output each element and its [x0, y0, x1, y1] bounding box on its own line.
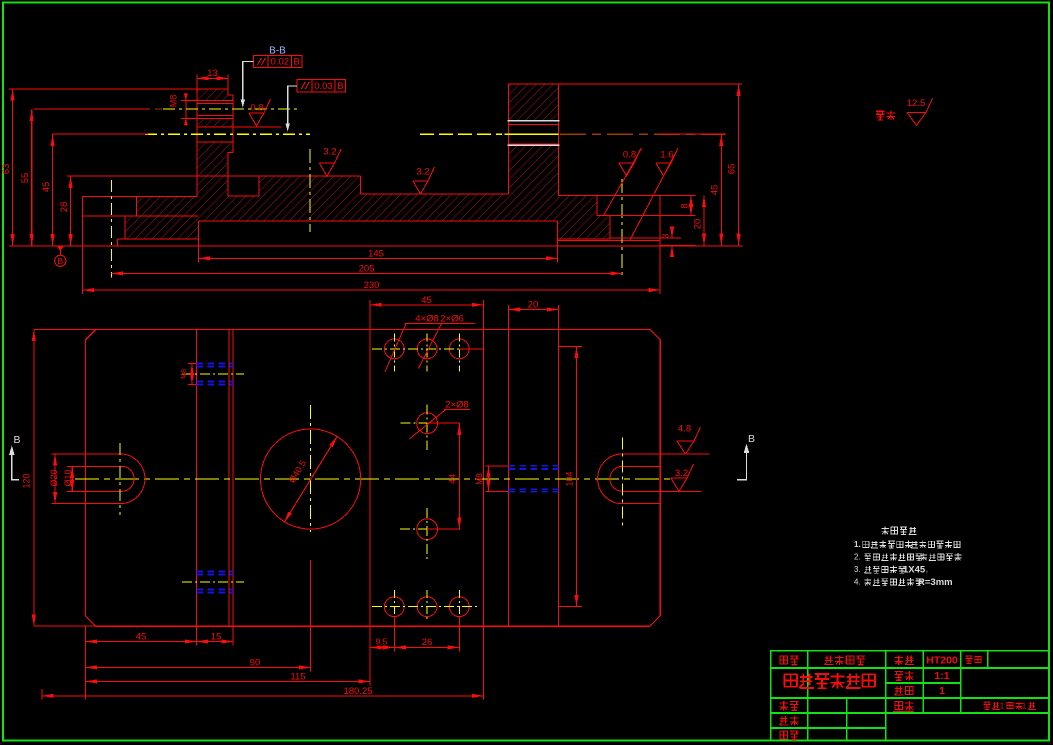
- plan vertical 20strip right: [558, 330, 560, 627]
- dim 65: [738, 84, 740, 245]
- top row centerline h: [372, 348, 480, 350]
- ext line right 134: [660, 133, 726, 135]
- txt cailiao: [894, 655, 903, 665]
- hatch right tower top: [509, 84, 559, 120]
- ext line right 195: [660, 195, 695, 197]
- dim 230: [83, 289, 661, 291]
- svg-text:B: B: [337, 81, 343, 92]
- vertical centerline boss: [309, 149, 311, 232]
- tolerance frame 0.03 B: [297, 80, 345, 92]
- svg-text:3: 3: [661, 233, 671, 238]
- left slot inner lines: [85, 465, 121, 467]
- svg-text:45: 45: [41, 182, 52, 193]
- dim 45 left: [52, 134, 54, 246]
- svg-text:B-B: B-B: [269, 46, 286, 57]
- txt xuhao: [779, 656, 788, 664]
- ext line bottom left: [9, 245, 83, 247]
- svg-text:20: 20: [528, 300, 539, 311]
- small hole 3: [449, 339, 469, 359]
- left tower top step: [228, 89, 233, 95]
- txt shenhe: [779, 731, 788, 739]
- vertical centerline left hole: [110, 180, 112, 278]
- right pocket wall: [609, 216, 611, 239]
- right slot outer lines: [623, 453, 710, 455]
- title col 960: [960, 651, 962, 713]
- hidden hole line blue: [197, 384, 234, 386]
- hatch left pocket band: [137, 196, 197, 216]
- left tower right step: [228, 153, 233, 196]
- svg-text:1: 1: [1022, 702, 1027, 711]
- svg-text:4×Ø8: 4×Ø8: [415, 314, 439, 325]
- datum B symbol: [55, 255, 66, 266]
- middle hole upper: [417, 413, 438, 434]
- dim 180.25: [42, 695, 484, 697]
- svg-text:B: B: [294, 57, 300, 68]
- svg-text:。: 。: [926, 568, 931, 574]
- svg-text:0.8: 0.8: [250, 103, 263, 114]
- right tower top edge: [509, 83, 559, 85]
- dim 45 top: [370, 304, 483, 306]
- M8 hidden lines blue: [508, 465, 558, 467]
- ext line 145 left: [198, 246, 200, 263]
- dim 44: [427, 422, 459, 424]
- ext line 45L: [53, 133, 148, 135]
- M8 hole outer lines: [181, 100, 233, 102]
- ext top 20: [507, 305, 509, 330]
- dim 205: [111, 272, 622, 274]
- M8 ext lines plan: [486, 465, 509, 467]
- svg-text:。: 。: [956, 543, 961, 549]
- hidden hole line blue: [197, 363, 234, 365]
- txt jianshu: [894, 686, 903, 695]
- left col centerline top: [182, 373, 244, 375]
- svg-text:B: B: [748, 433, 755, 445]
- tolerance frame 0.02 B: [254, 55, 302, 67]
- left tower top edge: [197, 88, 228, 90]
- left groove bottom: [117, 238, 198, 240]
- M8 axis centerline: [140, 108, 162, 110]
- hidden hole line blue: [197, 381, 234, 383]
- ext bottom lines: [84, 626, 86, 699]
- left pocket right wall: [136, 196, 138, 216]
- B arrow right: [737, 450, 747, 480]
- notch floor: [228, 195, 259, 197]
- svg-text:8: 8: [680, 203, 691, 208]
- left tower left edge: [196, 89, 198, 196]
- right slot outer arc: [598, 454, 623, 504]
- slab bottom rect top line: [199, 220, 558, 222]
- svg-text:M8: M8: [181, 369, 188, 379]
- part left edge: [82, 196, 84, 246]
- dim 15 bottom: [197, 641, 234, 643]
- svg-text:1.: 1.: [854, 540, 861, 549]
- B arrow left: [12, 452, 19, 480]
- svg-text:M8: M8: [474, 473, 484, 485]
- M8 hole inner lines: [197, 102, 233, 104]
- dim 45 bottom: [85, 641, 196, 643]
- dim 8 right: [690, 196, 692, 216]
- middle hole upper centerlines: [400, 422, 459, 424]
- svg-text:M8: M8: [169, 95, 179, 108]
- dim 3 right: [671, 227, 673, 238]
- plan vertical strip left: [369, 330, 371, 627]
- svg-text:230: 230: [364, 280, 380, 291]
- dim 28: [70, 176, 72, 246]
- svg-text:104: 104: [565, 471, 575, 486]
- left slot outer lines: [85, 453, 120, 455]
- title col 807: [807, 651, 809, 741]
- hole centerline v bottom: [426, 590, 428, 622]
- ext line top right: [559, 83, 743, 85]
- title col 885: [885, 651, 887, 741]
- bottom row centerline h: [372, 606, 480, 608]
- boss right edge: [359, 176, 361, 194]
- hidden hole line blue: [197, 571, 234, 573]
- left col centerline bottom: [182, 581, 244, 583]
- left tower right edge upper: [232, 95, 234, 153]
- big circle diameter dim: [284, 436, 337, 522]
- svg-text:55: 55: [20, 173, 31, 184]
- svg-text:15: 15: [211, 632, 222, 643]
- txt zhongliang: [894, 702, 903, 710]
- svg-text:1.6: 1.6: [660, 150, 673, 161]
- right step wall: [596, 196, 598, 216]
- ext top 45: [369, 300, 371, 329]
- right step floor: [597, 215, 610, 217]
- boss left edge: [258, 176, 260, 196]
- ext line bottom right: [660, 245, 743, 247]
- txt huitu: [779, 701, 788, 711]
- svg-text:3.2: 3.2: [323, 147, 336, 158]
- svg-text:2.: 2.: [854, 553, 861, 562]
- plan outline: [85, 330, 660, 627]
- M8 dim plan: [488, 466, 490, 492]
- svg-text:13: 13: [207, 68, 218, 79]
- hidden hole line blue: [197, 366, 234, 368]
- vertical centerline right hole: [621, 179, 623, 278]
- hatch left tower band2: [197, 118, 233, 127]
- tech req title: [881, 526, 888, 534]
- title col 923: [922, 651, 924, 713]
- hidden hole line blue: [197, 589, 234, 591]
- txt lingjianmingcheng: [824, 656, 833, 665]
- right groove bottom: [558, 238, 610, 240]
- big circle: [261, 429, 361, 529]
- top row red ext: [459, 348, 483, 350]
- ext line right 238: [610, 237, 681, 239]
- svg-text:R=3mm: R=3mm: [918, 577, 953, 588]
- hole centerline v bottom: [393, 590, 395, 622]
- txt miaotu: [779, 716, 788, 725]
- svg-text:4.: 4.: [854, 578, 861, 587]
- ext line 55: [34, 108, 148, 110]
- plan vertical strip right: [483, 330, 485, 627]
- title row line 2: [886, 682, 961, 684]
- title col 987: [987, 651, 989, 668]
- svg-text:45: 45: [421, 295, 432, 306]
- svg-text:0.02: 0.02: [271, 57, 290, 68]
- svg-text:4.8: 4.8: [678, 424, 691, 435]
- dim d20: [51, 453, 85, 455]
- svg-text:1: 1: [939, 685, 945, 697]
- right slot inner lines: [623, 465, 661, 467]
- svg-text:12.5: 12.5: [907, 98, 926, 109]
- right tower right edge: [558, 84, 560, 195]
- svg-text:Ø20: Ø20: [49, 469, 59, 486]
- svg-text:3.2: 3.2: [675, 468, 688, 479]
- hidden hole line blue: [197, 574, 234, 576]
- svg-text:145: 145: [368, 248, 384, 259]
- hole centerline v top: [393, 334, 395, 372]
- middle hole lower centerlines: [400, 528, 460, 530]
- small hole 6: [449, 597, 469, 617]
- svg-text:90: 90: [250, 657, 261, 668]
- small hole 1: [384, 339, 404, 359]
- dim 120: [33, 330, 35, 627]
- dim 26 bottom: [394, 646, 459, 648]
- svg-text:0.03: 0.03: [314, 81, 333, 92]
- svg-text:1: 1: [1000, 702, 1005, 711]
- dim 115: [85, 680, 370, 682]
- bore axis centerline left: [145, 133, 310, 135]
- svg-text:26: 26: [422, 637, 433, 648]
- hatch left tower lower: [197, 142, 259, 221]
- boss top edge: [259, 175, 360, 177]
- title row line 1: [771, 667, 1049, 669]
- right tower left edge: [508, 84, 510, 194]
- hidden hole line blue: [197, 592, 234, 594]
- qiyu text: [876, 111, 885, 120]
- dim 104: [576, 347, 578, 607]
- slab rect right edge: [557, 221, 559, 246]
- left slot outer arc: [120, 454, 145, 504]
- dim 145: [199, 257, 558, 259]
- ext line top left: [9, 88, 197, 90]
- svg-text:2×Ø8: 2×Ø8: [445, 400, 469, 411]
- big circle vertical centerline: [310, 405, 312, 532]
- M8 dimension: [185, 93, 187, 126]
- plan vertical line c: [232, 330, 234, 627]
- right slot centerline: [622, 438, 624, 528]
- dim 63: [12, 89, 14, 246]
- left pocket top line: [83, 195, 197, 197]
- leader white frame1: [243, 62, 254, 104]
- svg-text:45: 45: [136, 632, 147, 643]
- svg-text:Ø10: Ø10: [63, 469, 73, 486]
- plan horizontal centerline: [75, 478, 672, 480]
- dim d10: [67, 465, 85, 467]
- ext line 230 right: [659, 246, 661, 294]
- middle hole lower: [417, 519, 438, 540]
- hole centerline v top: [426, 334, 428, 372]
- txt big title: [784, 674, 798, 686]
- svg-text:2×Ø6: 2×Ø6: [440, 314, 464, 325]
- left slot centerline: [119, 443, 121, 515]
- plan vertical line b: [228, 330, 230, 627]
- hatch left lower band: [125, 216, 199, 239]
- svg-text:B: B: [13, 434, 20, 446]
- hatch right tower lower + right slab: [509, 146, 610, 240]
- title block outer: [771, 651, 1049, 741]
- svg-text:1:1: 1:1: [934, 670, 949, 682]
- svg-text:20: 20: [693, 219, 704, 230]
- part right edge: [659, 196, 661, 246]
- svg-text:65: 65: [727, 164, 738, 175]
- svg-text:115: 115: [290, 671, 305, 682]
- ext 120 bottom: [34, 625, 96, 627]
- svg-text:B: B: [57, 256, 63, 266]
- right slot inner arc: [610, 466, 623, 491]
- left pocket bottom line: [83, 215, 199, 217]
- left lower pocket wall: [124, 216, 126, 239]
- right deck line: [559, 195, 661, 197]
- svg-text:45: 45: [710, 185, 721, 196]
- bore lines left tower: [197, 126, 282, 128]
- middle deck line: [360, 193, 508, 195]
- svg-text:3.: 3.: [854, 565, 861, 574]
- small hole 2: [417, 339, 437, 359]
- ext line 230 left: [82, 246, 84, 294]
- svg-text:1X45: 1X45: [903, 565, 926, 576]
- title col 846: [846, 698, 848, 741]
- left groove wall: [116, 239, 118, 246]
- ext line right 215: [610, 215, 696, 217]
- bore lines right tower white: [508, 120, 560, 122]
- title row line 5: [771, 727, 886, 729]
- svg-text:0.8: 0.8: [623, 150, 636, 161]
- plan vertical line a: [196, 330, 198, 627]
- svg-text:3.2: 3.2: [416, 167, 429, 178]
- svg-text:HT200: HT200: [926, 655, 958, 667]
- dim 20 top: [508, 309, 558, 311]
- txt gong1zhang: [983, 702, 990, 709]
- svg-text:205: 205: [359, 263, 375, 274]
- hatch left tower top band: [197, 89, 233, 101]
- small hole 5: [417, 597, 437, 617]
- dim 9.5 bottom: [370, 646, 394, 648]
- ext line right 245.3: [660, 244, 695, 246]
- dim 55: [31, 110, 33, 246]
- slab rect left edge: [198, 221, 200, 246]
- svg-text:44: 44: [448, 474, 458, 484]
- svg-text:120: 120: [22, 473, 32, 488]
- dim 20 right: [703, 196, 705, 246]
- small hole 4: [384, 597, 404, 617]
- ext line 145 right: [557, 246, 559, 263]
- svg-text:28: 28: [59, 202, 70, 213]
- hole centerline v top: [458, 334, 460, 372]
- ext 120 top: [34, 329, 96, 331]
- svg-text:180.25: 180.25: [343, 686, 372, 697]
- bore axis centerline right: [560, 133, 725, 135]
- left col mini dim: [191, 364, 193, 385]
- part bottom line: [83, 245, 661, 247]
- plan vertical 20strip left: [507, 330, 509, 627]
- title row line 4: [771, 712, 1049, 714]
- txt beizhu: [965, 656, 972, 663]
- dim 13: [197, 77, 228, 79]
- hatch boss and middle slab: [259, 176, 509, 221]
- hole centerline v bottom: [458, 590, 460, 622]
- right pocket floor: [558, 240, 661, 242]
- dim 90: [85, 666, 310, 668]
- left slot inner arc: [122, 466, 134, 491]
- dim 45 right: [720, 134, 722, 245]
- title row line 3: [771, 697, 1049, 699]
- txt bili: [894, 672, 903, 681]
- bore axis centerline mid: [420, 133, 502, 135]
- svg-text:63: 63: [1, 164, 12, 175]
- ext line 28: [67, 175, 259, 177]
- bore lines right tower red: [509, 124, 559, 126]
- leader white frame2: [288, 86, 298, 127]
- svg-text:9.5: 9.5: [376, 636, 388, 646]
